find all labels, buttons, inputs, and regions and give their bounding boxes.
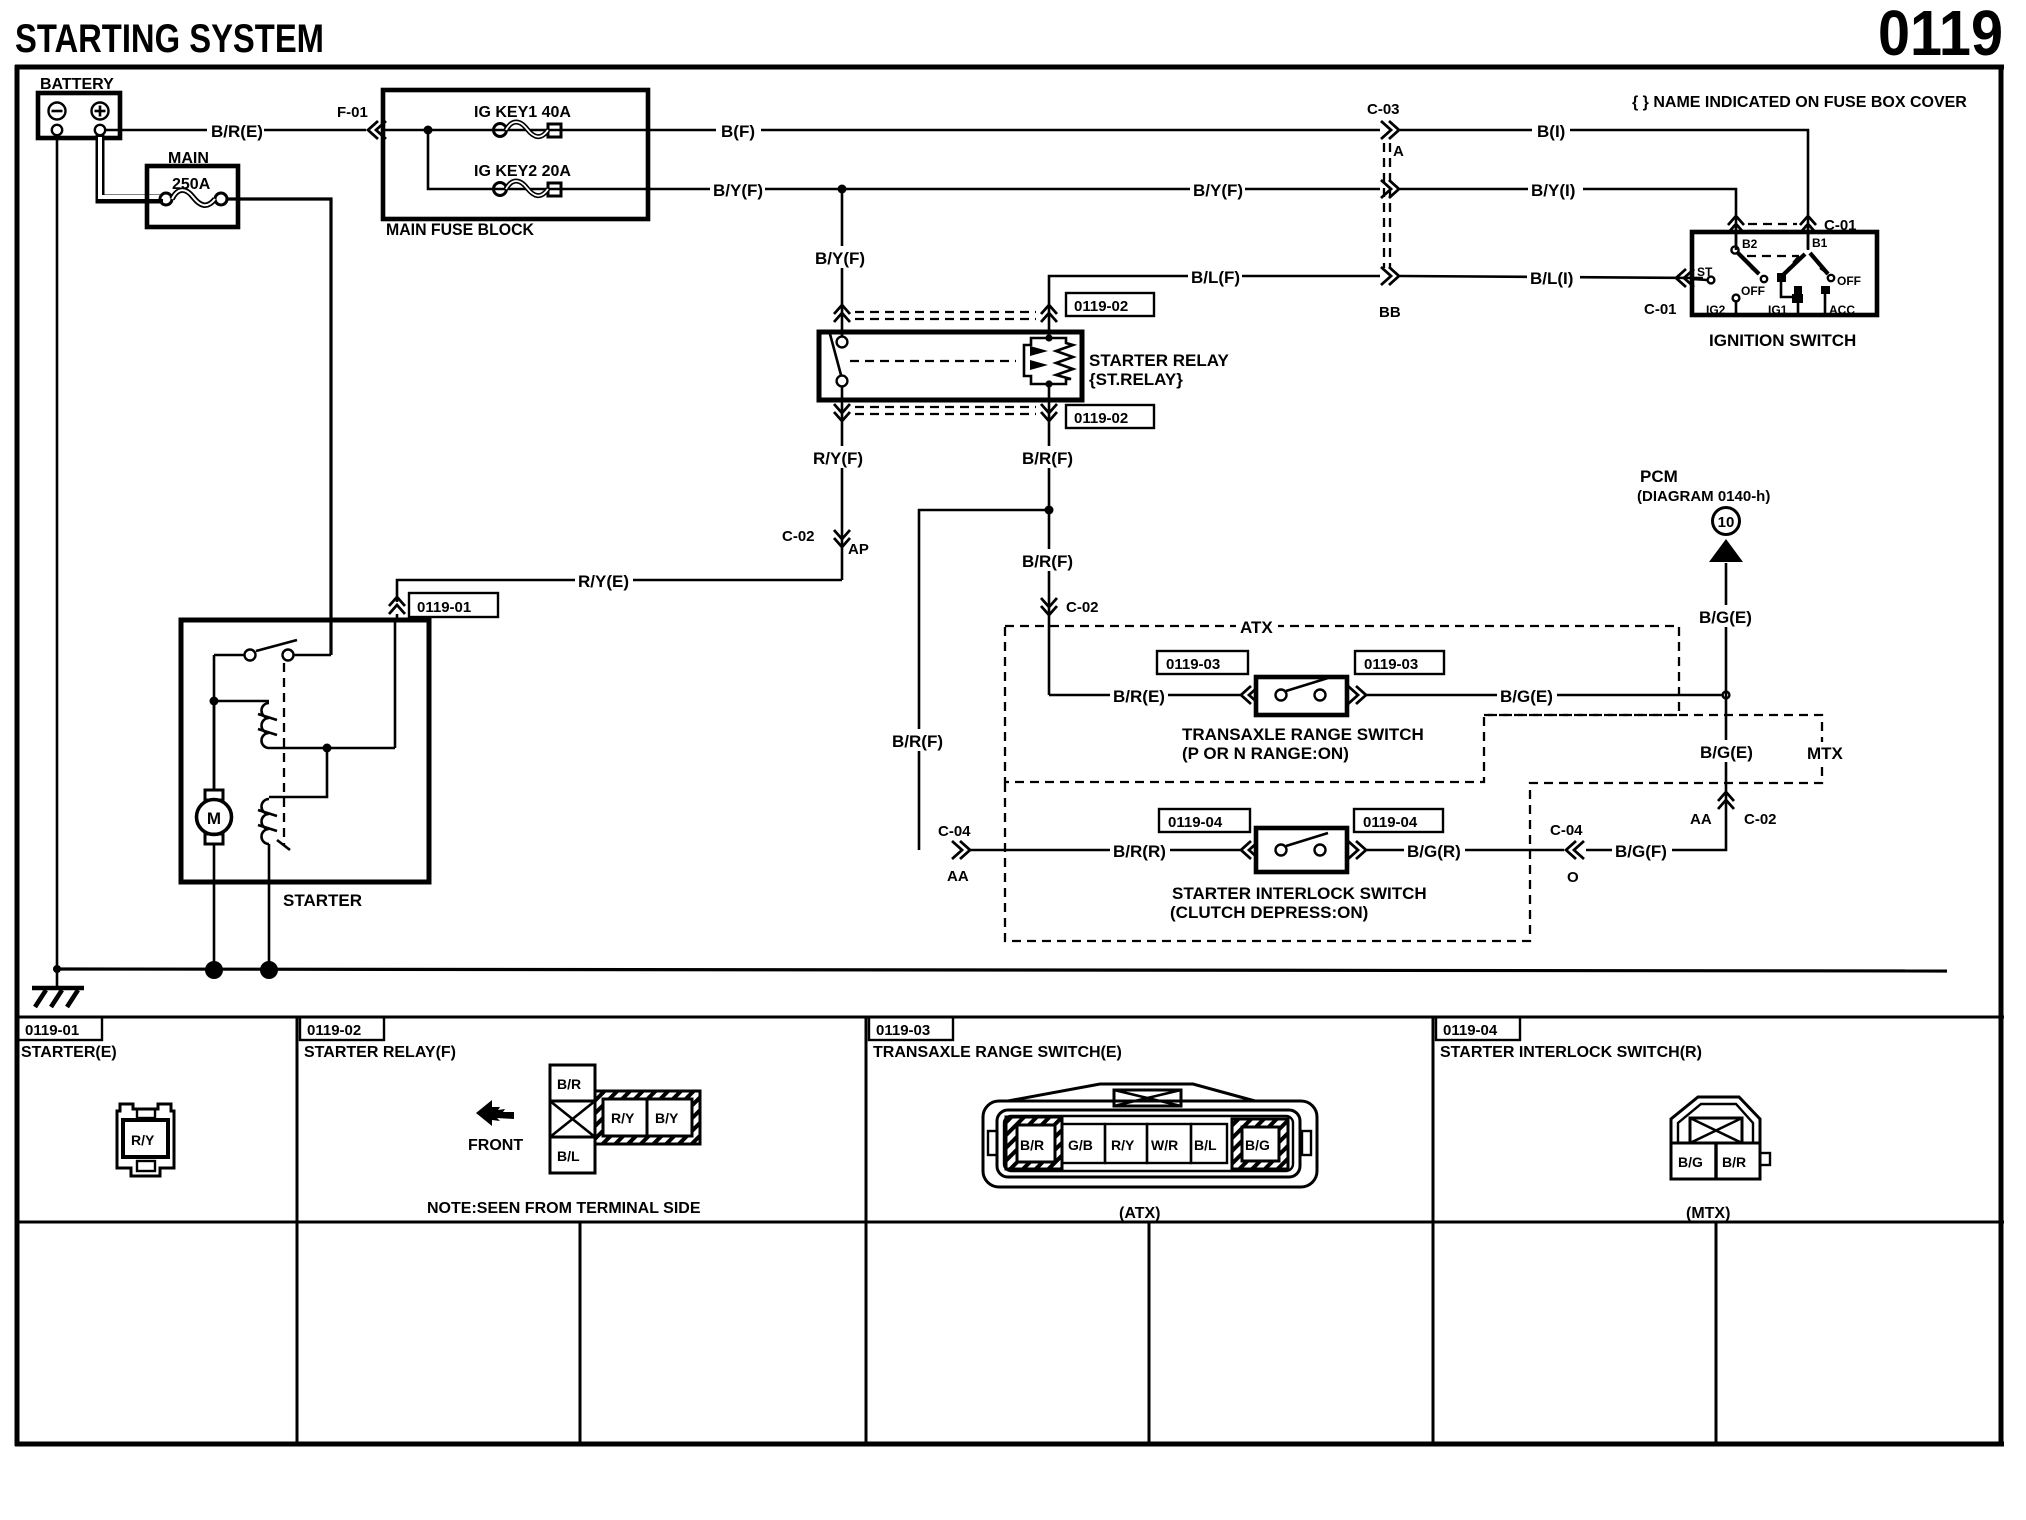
connector 0119-01 chevron at starter xyxy=(389,593,498,622)
connector 0119-02 chevrons above relay xyxy=(834,293,1154,322)
wire inside fuse block row1 xyxy=(383,129,648,132)
svg-text:B/L: B/L xyxy=(557,1148,580,1164)
svg-text:STARTER INTERLOCK SWITCH(R): STARTER INTERLOCK SWITCH(R) xyxy=(1440,1044,1702,1061)
wire B/R(E) battery to main fuse block xyxy=(106,119,366,141)
svg-text:(CLUTCH DEPRESS:ON): (CLUTCH DEPRESS:ON) xyxy=(1170,903,1368,922)
svg-text:B/G: B/G xyxy=(1678,1154,1703,1170)
connector 0119-03 labels xyxy=(1157,651,1444,674)
svg-text:0119-01: 0119-01 xyxy=(417,599,471,616)
ground junction coil xyxy=(260,961,278,979)
svg-text:B(F): B(F) xyxy=(721,122,755,141)
svg-text:B(I): B(I) xyxy=(1537,122,1565,141)
svg-text:(MTX): (MTX) xyxy=(1686,1205,1730,1222)
connector view 0119-02 starter relay xyxy=(427,1065,701,1217)
svg-text:IG2: IG2 xyxy=(1706,303,1726,317)
starter box xyxy=(181,620,429,910)
wire B(F) fuse block to connector C-03 xyxy=(648,119,1380,141)
wire B/R(F) relay down to junction xyxy=(1019,400,1079,510)
table cell 0119-04 header xyxy=(1436,1017,1702,1061)
motor M xyxy=(197,701,232,969)
svg-text:IGNITION SWITCH: IGNITION SWITCH xyxy=(1709,331,1856,350)
svg-text:(ATX): (ATX) xyxy=(1119,1205,1160,1222)
wire battery positive cable (double line) to MAIN fuse xyxy=(100,135,163,199)
svg-text:0119-03: 0119-03 xyxy=(1364,656,1418,673)
svg-text:B/R: B/R xyxy=(557,1076,581,1092)
connector view 0119-01 starter xyxy=(117,1104,174,1176)
connector C-04 O chevron xyxy=(1550,822,1584,886)
svg-text:R/Y(E): R/Y(E) xyxy=(578,572,629,591)
ground junction battery xyxy=(53,965,61,973)
svg-text:B/Y(I): B/Y(I) xyxy=(1531,181,1575,200)
svg-text:B2: B2 xyxy=(1742,237,1758,251)
svg-text:C-03: C-03 xyxy=(1367,101,1400,118)
connector view 0119-03 transaxle range switch xyxy=(983,1084,1317,1222)
svg-text:0119: 0119 xyxy=(1878,0,2003,69)
svg-text:B/G(F): B/G(F) xyxy=(1615,842,1667,861)
connector 0119-02 chevrons below relay xyxy=(834,404,1154,428)
svg-text:0119-02: 0119-02 xyxy=(307,1022,361,1039)
svg-text:NOTE:SEEN FROM TERMINAL SIDE: NOTE:SEEN FROM TERMINAL SIDE xyxy=(427,1200,701,1217)
svg-text:B/R: B/R xyxy=(1722,1154,1746,1170)
node B/G(E) junction xyxy=(1723,692,1730,699)
connector C-02 AP chevron xyxy=(782,528,869,558)
svg-text:G/B: G/B xyxy=(1068,1137,1093,1153)
svg-text:STARTER RELAY(F): STARTER RELAY(F) xyxy=(304,1044,456,1061)
connector C-02 AA chevron on B/G xyxy=(1690,792,1777,828)
wire B/G(F) to corner up xyxy=(1586,695,1757,861)
svg-text:AP: AP xyxy=(848,541,869,558)
svg-text:R/Y: R/Y xyxy=(131,1132,155,1148)
junction solenoid xyxy=(323,744,332,753)
svg-text:10: 10 xyxy=(1718,514,1735,531)
wire B(I) to ignition switch B1 xyxy=(1400,119,1808,250)
svg-text:0119-04: 0119-04 xyxy=(1363,814,1418,831)
svg-text:B/L(I): B/L(I) xyxy=(1530,269,1573,288)
junction in fuse block xyxy=(424,126,433,135)
svg-text:O: O xyxy=(1567,869,1579,886)
wire 0119-01 entry vertical xyxy=(394,620,397,748)
wire B/L(I) to ignition switch ST xyxy=(1400,266,1703,288)
connector C-04 AA chevron on B/R(R) xyxy=(938,823,971,885)
ignition switch box xyxy=(1692,232,1877,350)
svg-text:B/L: B/L xyxy=(1194,1137,1217,1153)
svg-text:W/R: W/R xyxy=(1151,1137,1178,1153)
fuse IG KEY2 20A xyxy=(474,163,571,196)
svg-text:B1: B1 xyxy=(1812,236,1828,250)
main fuse block box xyxy=(383,90,648,239)
svg-text:STARTER INTERLOCK SWITCH: STARTER INTERLOCK SWITCH xyxy=(1172,884,1427,903)
svg-text:B/R(E): B/R(E) xyxy=(1113,687,1165,706)
junction B/Y(F) branch to starter relay xyxy=(838,185,847,194)
ground junction motor xyxy=(205,961,223,979)
transaxle range switch xyxy=(1182,677,1424,763)
wire B/Y(I) to ignition switch B2 xyxy=(1400,178,1736,250)
svg-text:B/Y(F): B/Y(F) xyxy=(1193,181,1243,200)
starter relay box xyxy=(819,332,1229,400)
wire to pull-in coil xyxy=(214,700,269,703)
svg-text:B/Y: B/Y xyxy=(655,1110,679,1126)
svg-text:C-02: C-02 xyxy=(1744,811,1777,828)
wire B/R(R) to starter interlock switch xyxy=(970,839,1242,861)
svg-text:FRONT: FRONT xyxy=(468,1137,523,1154)
wire B/Y(F) vertical to starter relay xyxy=(812,189,870,332)
connector 0119-04 labels xyxy=(1159,809,1443,832)
svg-text:MTX: MTX xyxy=(1807,744,1844,763)
wire battery negative to ground bus xyxy=(56,135,59,969)
connector F-01 chevron xyxy=(337,104,386,139)
ground symbol xyxy=(32,969,84,1007)
starter solenoid pull-in coil xyxy=(258,703,277,748)
svg-text:0119-02: 0119-02 xyxy=(1074,410,1128,427)
svg-text:B/L(F): B/L(F) xyxy=(1191,268,1240,287)
svg-text:M: M xyxy=(207,809,221,828)
svg-text:C-04: C-04 xyxy=(938,823,971,840)
svg-text:OFF: OFF xyxy=(1837,274,1861,288)
svg-text:F-01: F-01 xyxy=(337,104,368,121)
MTX dashed box xyxy=(1005,715,1850,941)
fuse MAIN 250A xyxy=(147,150,238,227)
connector C-02 chevron on B/R(F) xyxy=(1041,598,1099,616)
wire B/R(E) to transaxle range switch xyxy=(1049,684,1242,706)
wire MAIN fuse output down to starter xyxy=(227,199,331,655)
svg-text:R/Y: R/Y xyxy=(611,1110,635,1126)
svg-text:MAIN: MAIN xyxy=(168,150,209,167)
svg-text:B/R(F): B/R(F) xyxy=(1022,449,1073,468)
svg-text:IG KEY2 20A: IG KEY2 20A xyxy=(474,163,571,180)
svg-text:IG KEY1 40A: IG KEY1 40A xyxy=(474,104,571,121)
table cell 0119-01 header xyxy=(18,1017,117,1061)
svg-text:C-04: C-04 xyxy=(1550,822,1583,839)
svg-text:0119-02: 0119-02 xyxy=(1074,298,1128,315)
table cell 0119-03 header xyxy=(869,1017,1122,1061)
wire B/R(F) vertical to C-02 xyxy=(1019,510,1079,695)
connector C-03 chevrons and dashed link xyxy=(1367,101,1404,321)
svg-text:OFF: OFF xyxy=(1741,284,1765,298)
svg-text:R/Y: R/Y xyxy=(1111,1137,1135,1153)
svg-text:C-02: C-02 xyxy=(782,528,815,545)
svg-text:{ST.RELAY}: {ST.RELAY} xyxy=(1089,370,1183,389)
svg-text:B/R(F): B/R(F) xyxy=(892,732,943,751)
svg-text:0119-04: 0119-04 xyxy=(1168,814,1223,831)
wire R/Y(E) to starter xyxy=(397,569,842,602)
svg-text:BATTERY: BATTERY xyxy=(40,76,114,93)
wire hold-in coil to ground xyxy=(268,844,271,969)
svg-text:C-01: C-01 xyxy=(1644,301,1677,318)
svg-text:AA: AA xyxy=(1690,811,1712,828)
svg-text:STARTER(E): STARTER(E) xyxy=(21,1044,117,1061)
wire B/Y(F) fuse block to junction and C-03 xyxy=(648,178,1380,200)
svg-text:B/G: B/G xyxy=(1245,1137,1270,1153)
front arrow xyxy=(468,1100,523,1154)
svg-text:STARTER: STARTER xyxy=(283,891,362,910)
wire B/G(E) node to PCM xyxy=(1696,563,1756,695)
svg-text:B/G(E): B/G(E) xyxy=(1500,687,1553,706)
svg-text:B/R(E): B/R(E) xyxy=(211,122,263,141)
svg-text:PCM: PCM xyxy=(1640,467,1678,486)
junction starter xyxy=(210,697,219,706)
wire B/G(E) transaxle switch to node xyxy=(1364,684,1722,706)
svg-text:B/G(R): B/G(R) xyxy=(1407,842,1461,861)
svg-text:C-02: C-02 xyxy=(1066,599,1099,616)
svg-text:A: A xyxy=(1393,143,1404,160)
svg-text:0119-01: 0119-01 xyxy=(25,1022,79,1039)
svg-text:B/R: B/R xyxy=(1020,1137,1044,1153)
svg-text:0119-04: 0119-04 xyxy=(1443,1022,1498,1039)
wire from junction to fuse IG KEY2 xyxy=(428,130,648,189)
svg-text:STARTING SYSTEM: STARTING SYSTEM xyxy=(15,17,324,61)
connector view 0119-04 starter interlock switch xyxy=(1671,1097,1770,1222)
svg-text:B/R(R): B/R(R) xyxy=(1113,842,1166,861)
wire starter left branch xyxy=(213,655,216,790)
relay contact xyxy=(830,332,1016,400)
junction B/R(F) branch xyxy=(1045,506,1054,515)
svg-text:R/Y(F): R/Y(F) xyxy=(813,449,863,468)
starter interlock switch xyxy=(1170,828,1427,922)
table cell 0119-02 header xyxy=(300,1017,456,1061)
fuse IG KEY1 40A xyxy=(474,104,571,137)
svg-text:STARTER RELAY: STARTER RELAY xyxy=(1089,351,1229,370)
PCM off-page arrow xyxy=(1637,467,1770,562)
svg-text:BB: BB xyxy=(1379,304,1401,321)
starter solenoid hold-in coil xyxy=(258,799,290,850)
svg-text:{ } NAME INDICATED ON FUSE BOX: { } NAME INDICATED ON FUSE BOX COVER xyxy=(1632,94,1967,111)
svg-text:MAIN FUSE BLOCK: MAIN FUSE BLOCK xyxy=(386,220,535,239)
connector C-01 chevron at ignition switch xyxy=(1644,269,1694,318)
starter magnetic switch contact xyxy=(214,640,331,661)
svg-text:(P OR N RANGE:ON): (P OR N RANGE:ON) xyxy=(1182,744,1349,763)
ground bus wire xyxy=(57,969,1947,971)
svg-text:0119-03: 0119-03 xyxy=(1166,656,1220,673)
svg-text:TRANSAXLE RANGE SWITCH(E): TRANSAXLE RANGE SWITCH(E) xyxy=(873,1044,1122,1061)
wire B/L(F) starter relay to C-03 xyxy=(1049,265,1380,330)
svg-text:B/Y(F): B/Y(F) xyxy=(815,249,865,268)
relay coil xyxy=(1024,332,1073,400)
wire coil to R/Y(E) feed xyxy=(269,747,395,750)
svg-text:AA: AA xyxy=(947,868,969,885)
wire R/Y(F) relay to connector C-02 xyxy=(810,400,868,580)
wire B/G(R) interlock to C-04 xyxy=(1364,839,1564,861)
svg-text:(DIAGRAM 0140-h): (DIAGRAM 0140-h) xyxy=(1637,488,1770,505)
svg-text:ATX: ATX xyxy=(1240,618,1273,637)
table grid xyxy=(15,1017,2004,1444)
svg-text:B/G(E): B/G(E) xyxy=(1699,608,1752,627)
svg-text:ACC: ACC xyxy=(1829,303,1855,317)
svg-text:B/R(F): B/R(F) xyxy=(1022,552,1073,571)
svg-text:B/Y(F): B/Y(F) xyxy=(713,181,763,200)
wire B/R(F) branch to starter interlock xyxy=(889,510,1049,850)
ATX dashed box xyxy=(1005,617,1679,782)
svg-text:B/G(E): B/G(E) xyxy=(1700,743,1753,762)
battery xyxy=(38,76,120,138)
ignition switch internals xyxy=(1692,232,1861,317)
starter switch mechanical dashed link xyxy=(283,663,285,846)
svg-text:IG1: IG1 xyxy=(1768,303,1788,317)
svg-text:TRANSAXLE RANGE SWITCH: TRANSAXLE RANGE SWITCH xyxy=(1182,725,1424,744)
connector C-01 chevrons above ignition switch xyxy=(1728,216,1857,234)
svg-text:0119-03: 0119-03 xyxy=(876,1022,930,1039)
wire to hold-in coil xyxy=(269,748,327,797)
